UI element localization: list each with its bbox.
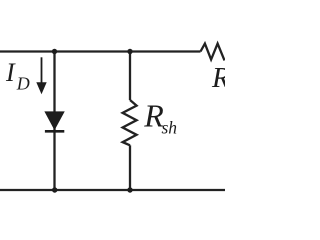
resistor Rsh zigzag	[123, 100, 137, 145]
node junction dot bottom-left	[52, 187, 57, 192]
diode D1 cathode bar	[45, 130, 64, 133]
node junction dot top-left	[52, 49, 57, 54]
wire Rsh branch top segment	[129, 52, 131, 101]
diode D1 triangle	[45, 112, 64, 129]
node junction dot top-right	[127, 49, 132, 54]
svg-text:D: D	[16, 74, 30, 94]
wire bottom bus	[0, 189, 225, 191]
wire Rsh branch bottom segment	[129, 145, 131, 190]
resistor Rs (top right, partially cropped)	[201, 44, 225, 61]
wire diode branch vertical	[53, 52, 55, 191]
node junction dot bottom-right	[127, 187, 132, 192]
svg-text:sh: sh	[162, 118, 178, 138]
svg-text:R: R	[211, 62, 225, 94]
current arrow ID	[41, 57, 43, 84]
svg-text:I: I	[5, 58, 16, 87]
wire top bus	[0, 50, 201, 52]
